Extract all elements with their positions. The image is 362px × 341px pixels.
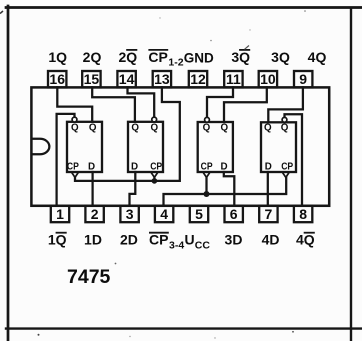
svg-text:3D: 3D: [225, 232, 243, 248]
svg-text:CP: CP: [281, 162, 293, 173]
wire pin13 CP1-2 rail to latch1 CP and latch2 CP: [75, 87, 180, 180]
pin 11 box: [224, 71, 242, 87]
latch 4 body: [261, 122, 296, 172]
svg-text:Q: Q: [203, 122, 211, 133]
svg-text:1Q: 1Q: [48, 49, 67, 65]
pin 9 box: [294, 71, 312, 87]
svg-text:Q: Q: [220, 122, 228, 133]
svg-text:8: 8: [299, 206, 307, 222]
svg-text:CP: CP: [67, 162, 79, 173]
border frame bottom: [6, 327, 362, 329]
border frame left: [7, 6, 10, 341]
latch1 CP polarity triangle: [72, 173, 78, 178]
border frame top: [6, 6, 362, 9]
svg-text:3Q: 3Q: [231, 49, 250, 65]
svg-text:5: 5: [195, 206, 203, 222]
label 1Qbar pin1: [48, 232, 67, 248]
inversion bubble latch2 Qbar: [152, 117, 157, 122]
svg-text:2: 2: [91, 206, 99, 222]
svg-text:2Q: 2Q: [118, 49, 137, 65]
svg-text:6: 6: [230, 206, 238, 222]
wire latch3 CP drop to CP3-4 rail: [205, 177, 207, 194]
svg-text:15: 15: [84, 71, 100, 87]
IC body outline U1 7475: [31, 87, 329, 205]
latch4 CP polarity triangle: [283, 173, 289, 178]
svg-text:4Q: 4Q: [296, 232, 315, 248]
svg-text:7: 7: [265, 206, 273, 222]
svg-text:CP: CP: [148, 49, 167, 65]
svg-text:14: 14: [119, 71, 135, 87]
svg-text:D: D: [220, 162, 227, 173]
wire pin16 to latch1 Q: [57, 87, 92, 121]
svg-text:Q: Q: [71, 122, 79, 133]
wire pin10 to latch3 Q: [224, 87, 267, 122]
svg-text:3Q: 3Q: [271, 49, 290, 65]
latch 2 body: [128, 122, 163, 172]
svg-text:CP: CP: [150, 162, 162, 173]
border frame right: [350, 9, 352, 341]
svg-text:CP: CP: [201, 162, 213, 173]
junction CP3-4 node: [204, 191, 210, 197]
pin 10 box: [259, 71, 277, 87]
svg-text:10: 10: [260, 71, 276, 87]
pin 13 box: [153, 71, 171, 87]
label CPbar 3-4 pin4: [149, 232, 184, 252]
svg-text:7475: 7475: [67, 266, 111, 288]
pin 7 box: [259, 206, 277, 222]
svg-text:GND: GND: [184, 50, 214, 65]
wire pin4 CP3-4 rail to latch4 CP: [164, 177, 287, 205]
wire latch4 Qbar bubble to pin8: [285, 114, 303, 206]
pin 6 box: [225, 206, 243, 222]
wire pin15 to latch2 Q: [92, 87, 135, 121]
svg-text:4Q: 4Q: [308, 49, 327, 65]
svg-text:3: 3: [126, 206, 134, 222]
svg-text:9: 9: [299, 71, 307, 87]
pin 8 box: [294, 206, 312, 222]
svg-text:16: 16: [49, 71, 65, 87]
label 4Qbar pin8: [296, 232, 315, 248]
pin 1 box: [51, 206, 69, 222]
wire pin11 to latch3 Qbar bubble: [207, 87, 233, 117]
svg-text:1D: 1D: [84, 232, 102, 248]
svg-text:4D: 4D: [262, 232, 280, 248]
svg-text:1-2: 1-2: [168, 57, 183, 69]
latch2 CP polarity triangle: [151, 173, 157, 178]
svg-text:Q: Q: [150, 122, 158, 133]
svg-text:D: D: [131, 162, 138, 173]
svg-text:D: D: [88, 162, 95, 173]
wire pin14 to latch2 Qbar bubble: [128, 87, 155, 117]
svg-text:4: 4: [160, 206, 168, 222]
svg-text:2D: 2D: [120, 232, 138, 248]
svg-text:Q: Q: [89, 122, 97, 133]
svg-text:1Q: 1Q: [48, 232, 67, 248]
pin 3 box: [120, 206, 138, 222]
junction CP1-2 node: [152, 178, 158, 184]
pin 5 box: [190, 206, 208, 222]
svg-text:11: 11: [226, 71, 241, 87]
svg-text:13: 13: [154, 71, 170, 87]
inversion bubble latch1 Qbar: [72, 117, 77, 122]
wire pin9 to latch4 Q: [268, 87, 303, 122]
svg-text:CP: CP: [149, 232, 168, 248]
svg-text:Q: Q: [131, 122, 139, 133]
label 3Qbar pin11: [231, 49, 250, 65]
svg-text:Q: Q: [264, 122, 272, 133]
svg-text:CC: CC: [195, 239, 211, 251]
svg-text:12: 12: [190, 71, 206, 87]
svg-text:U: U: [185, 232, 195, 248]
label CPbar 1-2 pin13: [148, 49, 183, 69]
label UCC (Vcc) pin5: [185, 232, 211, 252]
svg-text:D: D: [265, 162, 272, 173]
svg-text:1: 1: [56, 206, 64, 222]
wire latch2 CP drop to CP1-2 rail: [153, 177, 155, 181]
svg-text:2Q: 2Q: [83, 49, 102, 65]
pin 12 box: [189, 71, 207, 87]
pin 2 box: [85, 206, 103, 222]
wire latch1 D to pin2: [91, 172, 93, 206]
IC notch: [33, 139, 50, 155]
pin 4 box: [155, 206, 173, 222]
inversion bubble latch4 Qbar: [282, 117, 287, 122]
latch3 CP polarity triangle: [203, 173, 209, 178]
inversion bubble latch3 Qbar: [205, 117, 210, 122]
latch 1 body: [67, 122, 102, 172]
wire latch4 D to pin7: [267, 172, 269, 206]
pin 14 box: [117, 71, 135, 87]
pin 16 box: [48, 71, 66, 87]
latch 3 body: [198, 122, 233, 172]
svg-text:3-4: 3-4: [169, 239, 184, 251]
wire latch2 D to pin3: [130, 172, 136, 206]
label 2Qbar pin14: [118, 49, 137, 65]
pin 15 box: [82, 71, 100, 87]
scan speckles: [0, 11, 3, 14]
wire pin1 to latch1 Qbar bubble: [57, 114, 75, 206]
wire latch3 D to pin6: [224, 172, 235, 206]
svg-text:Q: Q: [281, 122, 289, 133]
